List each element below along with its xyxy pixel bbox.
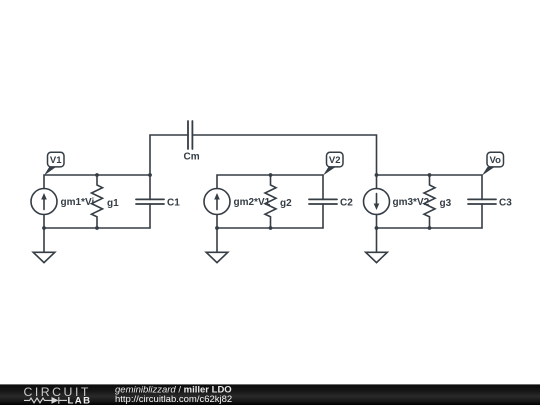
svg-text:C2: C2 xyxy=(340,197,353,208)
logo resistor-diode wire xyxy=(24,397,67,404)
node dot stage3 top source xyxy=(375,173,379,177)
svg-text:g1: g1 xyxy=(107,198,119,209)
svg-text:gm3*V2: gm3*V2 xyxy=(393,197,430,208)
svg-text:V1: V1 xyxy=(50,155,62,166)
ground stage2 xyxy=(206,228,228,263)
node dot stage1 top cap xyxy=(148,173,152,177)
current source G2 gm2*V1 xyxy=(204,189,230,215)
node dot stage3 bottom source xyxy=(375,226,379,230)
wire top rail Cm left segment xyxy=(150,135,188,175)
svg-text:gm1*Vi: gm1*Vi xyxy=(61,197,95,208)
svg-text:http://circuitlab.com/c62kj82: http://circuitlab.com/c62kj82 xyxy=(115,394,232,405)
node dot stage3 bottom resistor xyxy=(428,226,432,230)
ground stage3 xyxy=(366,228,388,263)
current source G1 gm1*Vi xyxy=(31,189,57,215)
wire top rail Cm right segment xyxy=(192,135,376,175)
node flag V2 xyxy=(323,152,343,175)
wire stage2 top rail xyxy=(217,175,323,189)
node dot stage3 top resistor xyxy=(428,173,432,177)
node dot stage2 bottom resistor xyxy=(269,226,273,230)
svg-text:C3: C3 xyxy=(499,197,512,208)
resistor g1 xyxy=(92,175,103,228)
node dot stage1 bottom resistor xyxy=(95,226,99,230)
svg-text:LAB: LAB xyxy=(68,396,92,405)
svg-text:Vo: Vo xyxy=(489,155,501,166)
wire stage1 top rail xyxy=(44,175,150,189)
wire stage1 bottom rail xyxy=(44,215,150,229)
footer bar xyxy=(0,384,540,405)
node dot stage1 top resistor xyxy=(95,173,99,177)
capacitor Cm xyxy=(188,121,192,149)
svg-text:V2: V2 xyxy=(329,155,341,166)
capacitor C3 xyxy=(468,175,496,228)
svg-text:gm2*V1: gm2*V1 xyxy=(234,197,271,208)
wire stage2 bottom rail xyxy=(217,215,323,229)
capacitor C1 xyxy=(136,175,164,228)
svg-text:C1: C1 xyxy=(167,197,180,208)
svg-text:g2: g2 xyxy=(280,198,292,209)
wire stage3 bottom rail xyxy=(377,215,483,229)
resistor g3 xyxy=(424,175,435,228)
capacitor C2 xyxy=(309,175,337,228)
wire stage3 top rail xyxy=(377,175,483,189)
node flag Vo xyxy=(482,152,504,175)
resistor g2 xyxy=(265,175,276,228)
svg-text:Cm: Cm xyxy=(184,152,200,163)
node dot stage1 bottom source xyxy=(42,226,46,230)
ground stage1 xyxy=(33,228,55,263)
svg-text:g3: g3 xyxy=(440,198,452,209)
current source G3 gm3*V2 xyxy=(364,189,390,215)
node dot stage2 bottom source xyxy=(215,226,219,230)
node flag V1 xyxy=(44,152,64,175)
node dot stage2 top resistor xyxy=(269,173,273,177)
